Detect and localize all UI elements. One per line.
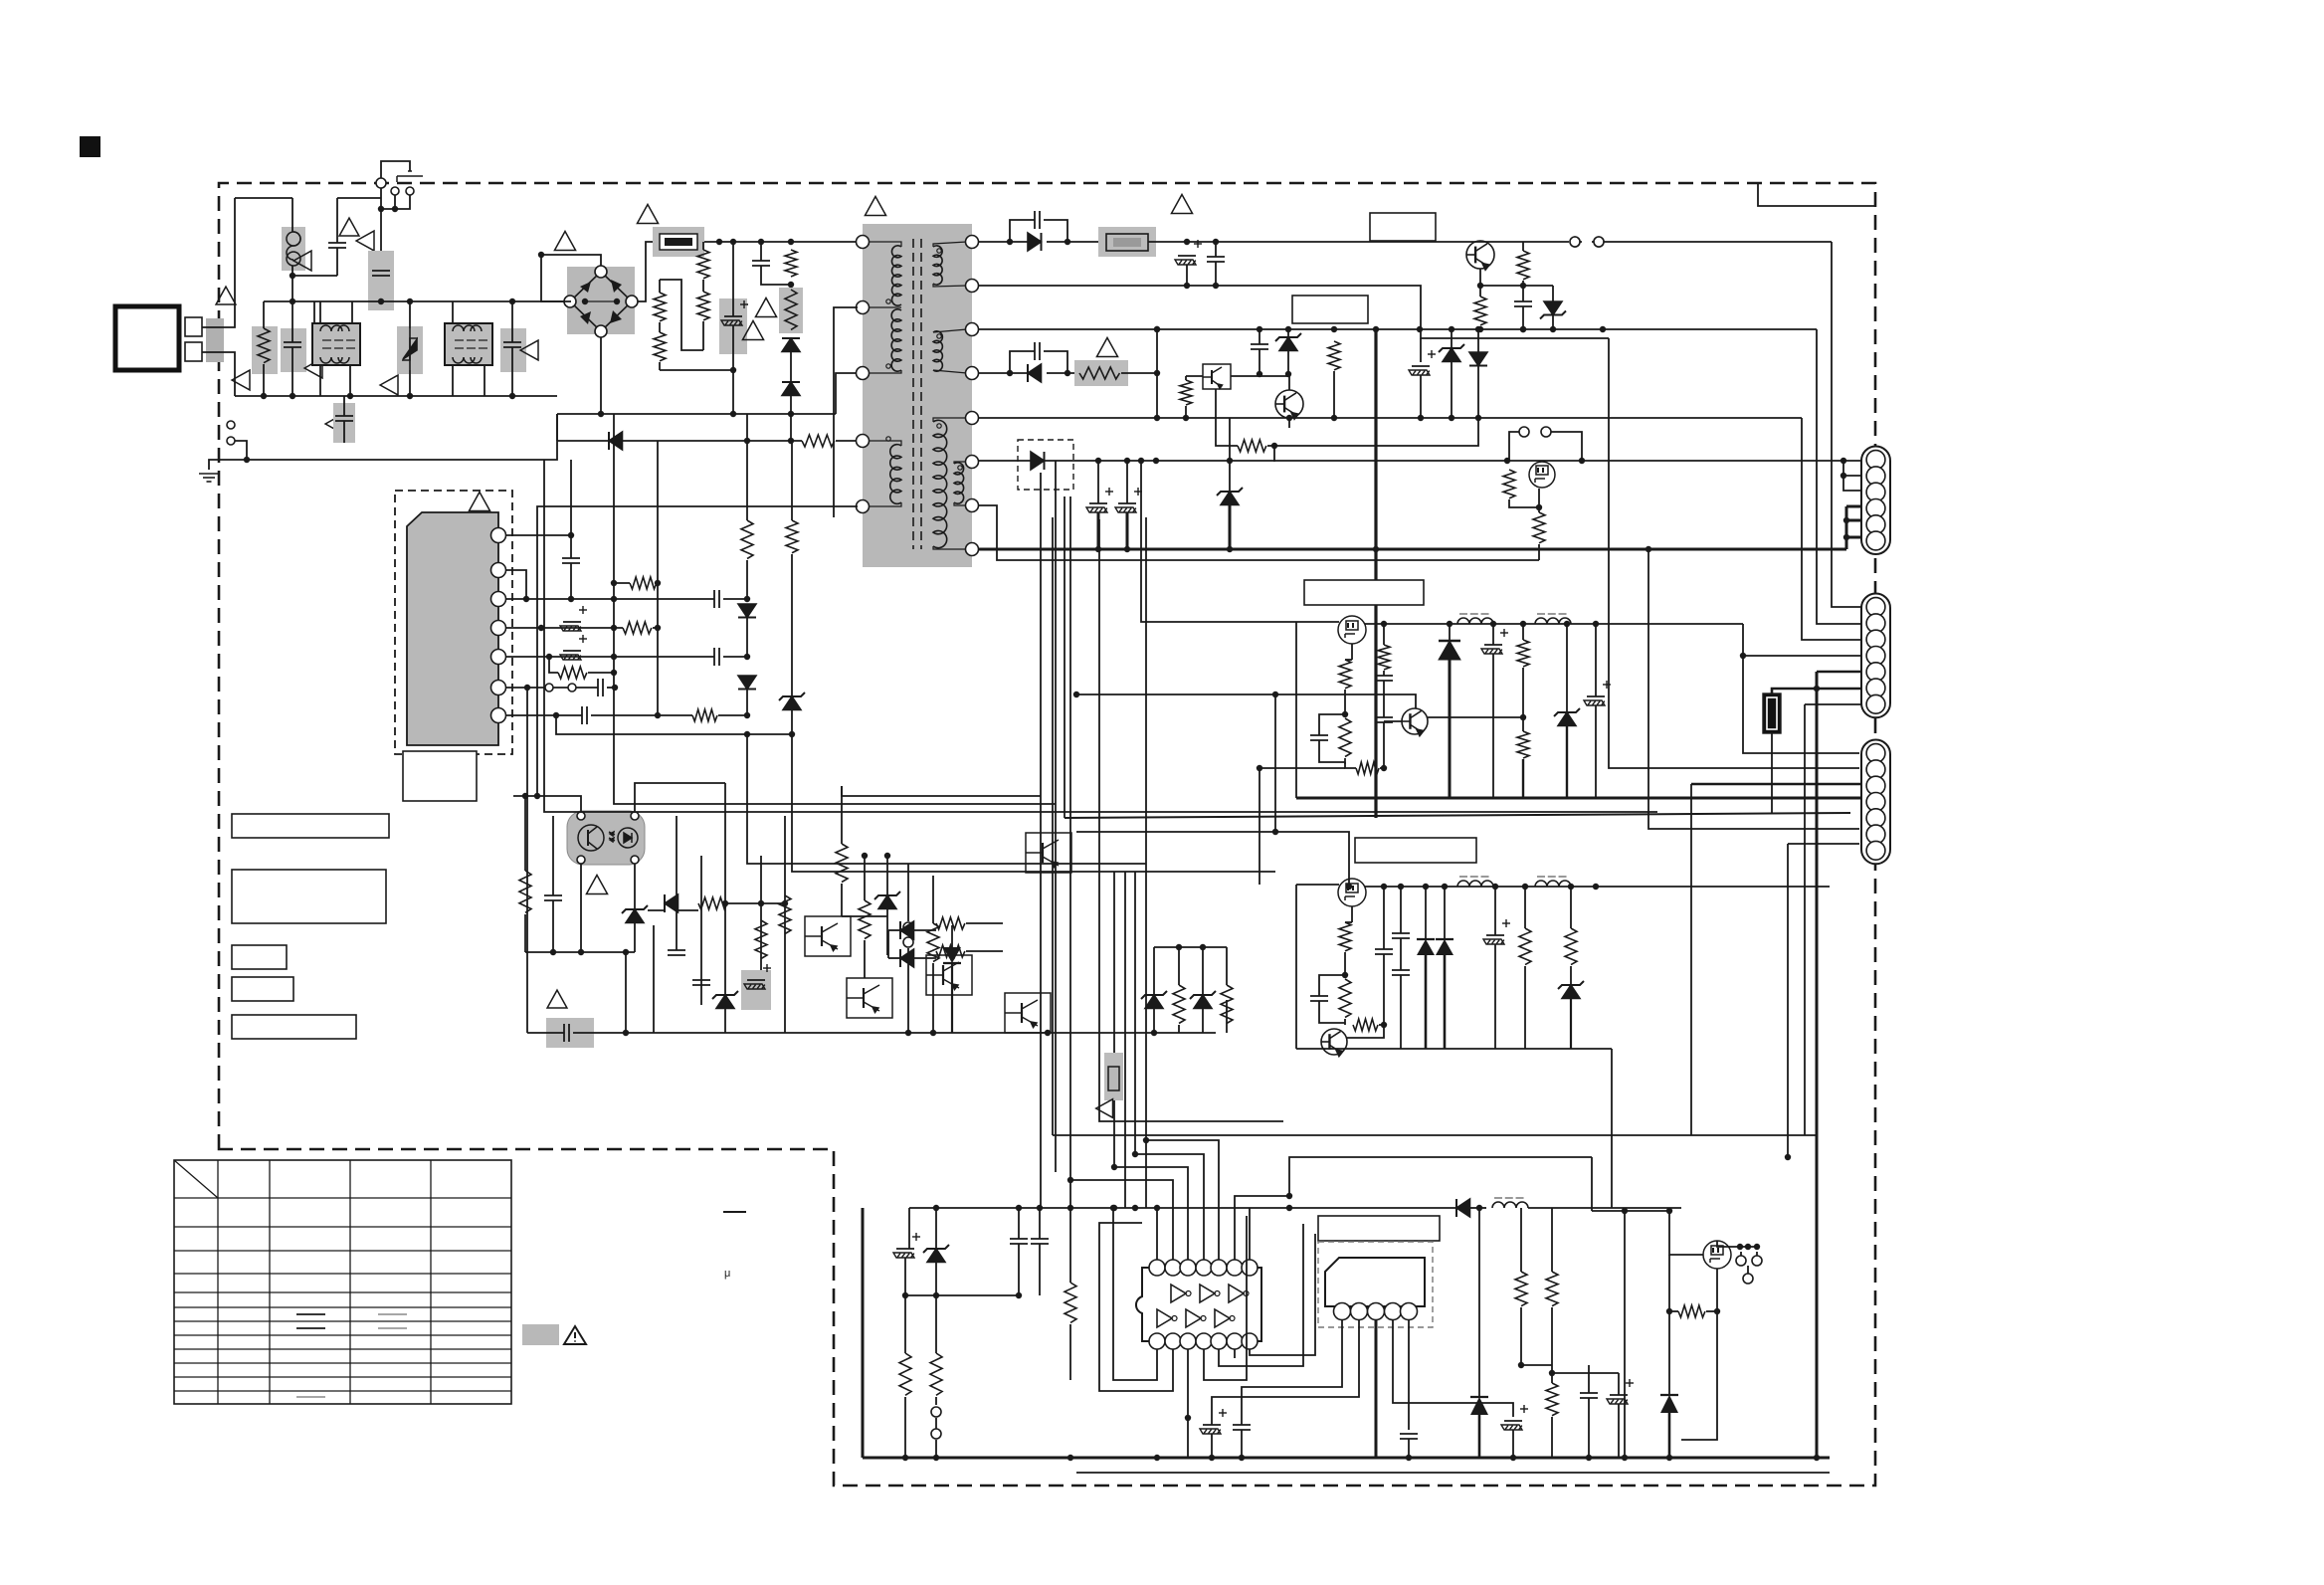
wire basin bus [573, 1032, 1216, 1034]
junction J92 [1373, 546, 1379, 552]
table entry dash 1 [296, 1313, 325, 1315]
resistor R18 [779, 895, 791, 934]
wire W78 [935, 1440, 937, 1458]
wire W43 [1552, 286, 1554, 301]
transistor Q10 box [1203, 364, 1231, 389]
junction J84 [1449, 326, 1454, 332]
wire W28 [914, 929, 936, 931]
node N1 [376, 178, 386, 188]
pin P33 [1242, 1260, 1258, 1276]
wire L5 to lower-left [537, 506, 858, 796]
wire Q13 base [1384, 720, 1402, 722]
optocoupler led [609, 828, 638, 848]
junction J94 [1475, 415, 1481, 421]
highlight resistor R1 [252, 326, 278, 374]
diode D12 [1031, 452, 1045, 470]
junction J89 [1285, 371, 1291, 377]
wire jumper down [1551, 432, 1582, 461]
label box I [1355, 838, 1476, 863]
AC inlet J1 [115, 306, 179, 370]
junction J19 [758, 239, 764, 245]
wire [1069, 1208, 1071, 1283]
junction J13 [244, 457, 250, 463]
junction J67 [1065, 239, 1070, 245]
junction J128 [1381, 884, 1387, 890]
junction J66 [1007, 239, 1013, 245]
junction J64 [1045, 1030, 1051, 1036]
wire snubber2 up [1010, 351, 1035, 373]
wire w4 head [868, 441, 901, 446]
junction J54 [623, 949, 629, 955]
wire IC2 p11 [1135, 1154, 1204, 1260]
wire W83 [1551, 1365, 1553, 1383]
wire ZD10 down [1451, 362, 1452, 418]
junction J137 [1381, 1022, 1387, 1028]
wire W25 [841, 884, 843, 916]
choke L2 [445, 323, 492, 365]
pin P12 [966, 499, 979, 512]
wire W14 [718, 714, 747, 716]
junction J9 [290, 393, 295, 399]
wire y952 link [1154, 946, 1227, 948]
resistor R33 [1339, 660, 1351, 689]
wire W39 [1479, 326, 1481, 329]
wire busA [1365, 623, 1743, 625]
wire switch pole2 [395, 195, 410, 209]
wire y416 bus [557, 413, 836, 415]
wire rail420 [978, 417, 1802, 419]
wire Q15 gate [1669, 1243, 1703, 1255]
junction J50 [522, 793, 528, 799]
junction J62 [1200, 944, 1206, 950]
wire W2 [343, 396, 345, 416]
wire y800 [513, 795, 537, 797]
junction J107 [1840, 458, 1846, 464]
wire W35 [1226, 947, 1228, 985]
wire busB bottom [1296, 1048, 1612, 1050]
junction J6 [407, 298, 413, 304]
wire [1273, 446, 1275, 462]
polarity dot [937, 249, 941, 253]
node N26 [1736, 1256, 1746, 1266]
wire Q10 left [1186, 375, 1203, 377]
wire W32 [888, 929, 900, 931]
wire D14 top [1425, 887, 1427, 939]
wire D18 stem [1668, 1413, 1671, 1458]
wire W19 [524, 914, 526, 952]
wire y372 bus [660, 369, 733, 371]
wire C1 bottom [291, 347, 293, 396]
wire W55 [1522, 624, 1524, 640]
transistor Q8 [1321, 1029, 1347, 1057]
wire y817 bus [1065, 813, 1850, 818]
warning mark inlet [216, 287, 236, 304]
pin P59 [1866, 841, 1885, 860]
label box J [1318, 1216, 1440, 1241]
capacitor C45 [1400, 1434, 1418, 1439]
wire IC2 p2 loop [1099, 1223, 1173, 1391]
wire busA to conn2 p4 [1743, 624, 1862, 656]
capacitor C17 [564, 1024, 569, 1042]
node N28 [1743, 1274, 1753, 1284]
junction J166 [1745, 1244, 1751, 1250]
wire y340 to conn3 p2 [1609, 338, 1859, 768]
wire W52 [1451, 329, 1452, 348]
capacitor C32 [1375, 676, 1393, 681]
resistor R6 [802, 435, 835, 447]
junction J37 [611, 654, 617, 660]
wire x617 low [613, 583, 615, 708]
junction J34 [611, 625, 617, 631]
wire bundle v5 [1124, 872, 1126, 1208]
wire y808 link [614, 786, 1056, 804]
junction J125 [1257, 765, 1262, 771]
junction J43 [655, 712, 661, 718]
wire y1380 link [1552, 1372, 1619, 1374]
capacitor C33 [1375, 717, 1393, 722]
wire basin v0 [653, 925, 655, 1033]
wire varistor top [409, 301, 411, 328]
wire C48 top [1618, 1373, 1620, 1395]
wire rail463 [978, 460, 1862, 462]
wire x796 mid [791, 554, 793, 696]
junction J145 [1286, 1205, 1292, 1211]
wire IC1 pin7 row [506, 714, 582, 716]
node N17 [903, 937, 913, 947]
junction J171 [1666, 1455, 1672, 1461]
junction J3 [290, 273, 295, 279]
wire y876 stub [1125, 871, 1275, 873]
junction J175 [1510, 1455, 1516, 1461]
warning mark R48 [1096, 337, 1117, 356]
wire W81 [1512, 1430, 1514, 1458]
junction J102 [1095, 458, 1101, 464]
pin P50 [1866, 663, 1885, 682]
pin P44 [1866, 515, 1885, 534]
wire IC3 p1 [1242, 1319, 1342, 1425]
junction J52 [578, 949, 584, 955]
wire opto TR [635, 783, 665, 812]
transistor Q9 [1466, 241, 1494, 270]
junction J113 [1138, 458, 1144, 464]
wire snubber up [1010, 220, 1035, 242]
wire inlet-top to upper loop [202, 198, 235, 327]
capacitor C18 [668, 950, 685, 955]
wire dpair link [887, 930, 889, 958]
wire W42 [1522, 286, 1524, 301]
pin P35 [1334, 1303, 1351, 1320]
IC2 hex inverter body [1136, 1268, 1261, 1341]
wire IC3 p5 [1408, 1319, 1410, 1430]
capacitor C47 [1580, 1393, 1598, 1398]
inlet gray block [206, 318, 224, 362]
wire L1b bottom [349, 365, 351, 396]
wire Q11 top [1288, 376, 1290, 390]
mosfet Q14 [1338, 879, 1366, 906]
junction J59 [862, 853, 868, 859]
wire [935, 1295, 937, 1353]
junction J95 [1007, 370, 1013, 376]
wire x528 [524, 796, 526, 871]
wire y772 link [1259, 767, 1345, 769]
wire W18 [791, 710, 793, 734]
inverter gate G1 [1171, 1285, 1186, 1302]
node N13 [577, 856, 585, 864]
mosfet Q15 [1703, 1241, 1731, 1269]
wire C27 stem [1097, 512, 1100, 549]
wire s3 head [933, 418, 967, 422]
pin P47 [1866, 614, 1885, 633]
wire D13 top [1449, 624, 1451, 641]
pin P23 [1165, 1260, 1181, 1276]
polarity dot [937, 424, 941, 428]
capacitor C36 electrolytic [1483, 919, 1510, 944]
junction J61 [1176, 944, 1182, 950]
junction J23 [788, 411, 794, 417]
junction J22 [788, 282, 794, 288]
wire [1153, 947, 1155, 995]
capacitor C1 [284, 342, 301, 347]
node N11 [568, 684, 576, 692]
junction J154 [1132, 1151, 1138, 1157]
wire W41 [1522, 281, 1524, 286]
wire W8 [702, 321, 704, 350]
wire link [1521, 1364, 1552, 1366]
wire W6 [702, 242, 704, 250]
junction J127 [1346, 884, 1352, 890]
wire conn1 p2 [1843, 461, 1862, 476]
junction J164 [1666, 1208, 1672, 1214]
inverter gate G2 [1200, 1285, 1215, 1302]
wire fuse-cap link [292, 275, 337, 277]
wire D2-D3 [790, 352, 792, 382]
wire C7 to R4 [761, 266, 791, 285]
wire W12 [588, 672, 614, 674]
wire opto TL [537, 796, 581, 812]
wire cap loop a [1319, 714, 1345, 735]
wire x629 up [625, 952, 627, 1033]
zener ZD11 [1558, 712, 1576, 726]
resistor R22 [936, 917, 965, 929]
transistor Q7 [1026, 833, 1071, 873]
wire W9 [760, 242, 762, 261]
resistor R16 [698, 897, 727, 909]
wire W7 [702, 280, 704, 292]
junction J36 [546, 654, 552, 660]
wire y1302 link [905, 1294, 1022, 1296]
wire p3 down [1187, 1366, 1189, 1418]
junction J39 [611, 670, 617, 676]
diode D15 [1436, 939, 1453, 955]
junction J5 [378, 298, 384, 304]
warning mark [339, 218, 359, 236]
pin P11 [966, 456, 979, 469]
inverter gate G3 [1229, 1285, 1244, 1302]
pin P17 [491, 621, 506, 636]
warning mark C4 [520, 340, 538, 360]
junction J38 [744, 654, 750, 660]
junction J121 [1073, 692, 1079, 697]
wire ZD11 stem [1566, 726, 1568, 798]
resistor R2a [654, 293, 666, 321]
wire C6 top [732, 242, 734, 316]
wire busB left [1296, 884, 1339, 886]
junction J99 [1154, 415, 1160, 421]
wire left edge link [862, 1208, 865, 1458]
diode D10 [900, 949, 914, 967]
capacitor C43 [1233, 1425, 1251, 1430]
wire switch to junction [380, 188, 382, 209]
wire Q16 gate row [1509, 499, 1535, 507]
pin P20 [491, 708, 506, 723]
resistor R1 [258, 328, 270, 363]
transformer core [913, 239, 921, 549]
wire switch pole [381, 195, 395, 209]
diode D8 [665, 894, 678, 912]
highlight C20 [741, 970, 771, 1010]
wire D13 stem [1449, 660, 1452, 798]
wire W75 [935, 1263, 937, 1295]
capacitor C40 [1010, 1239, 1028, 1244]
wire ZD14 top [1229, 461, 1231, 492]
winding sec-2 [933, 331, 942, 371]
wire busB [1365, 886, 1830, 888]
junction J20 [788, 239, 794, 245]
wire [678, 909, 698, 911]
wire [1018, 1208, 1020, 1239]
legend warning [564, 1326, 586, 1344]
wire y443 right [836, 440, 858, 442]
wire W70 [1379, 1024, 1384, 1026]
wire blockB left edge [1295, 885, 1297, 1049]
node N16 [903, 922, 913, 932]
label box E [232, 1015, 356, 1039]
junction J115 [1447, 621, 1452, 627]
wire x913 down [907, 864, 909, 921]
diode D7 [738, 676, 756, 690]
wire W61 [1380, 767, 1384, 769]
junction J16 [538, 252, 544, 258]
warning mark C1 [304, 358, 322, 378]
junction J85 [1475, 326, 1481, 332]
transistor Q4 [847, 978, 892, 1018]
zener ZD5 [878, 895, 896, 909]
wire conn1 p6 [1846, 536, 1862, 539]
wire blockB feed [1076, 832, 1349, 887]
wire ZD11 top [1566, 624, 1568, 712]
capacitor C34 [1392, 933, 1410, 938]
wire [886, 856, 888, 895]
resistor R28 [1180, 380, 1192, 405]
wire varistor bottom [409, 370, 411, 396]
junction J90 [1331, 415, 1337, 421]
table entry dash 4 [378, 1327, 407, 1329]
wire W85 [1756, 1252, 1758, 1256]
wire fuse bottom to rail [291, 266, 293, 301]
wire x913 low [907, 948, 909, 1033]
resistor R17 [755, 920, 767, 959]
wire basin z1160 [1153, 1000, 1155, 1033]
resistor R11 [558, 667, 587, 679]
wire W88 [1706, 1310, 1717, 1312]
junction J30 [568, 596, 574, 602]
junction J129 [1398, 884, 1404, 890]
svg-text:μ: μ [724, 1268, 730, 1280]
resistor R15 [519, 871, 531, 912]
junction J182 [1814, 686, 1820, 692]
resistor R26 [1474, 297, 1486, 325]
pin P4 [857, 435, 870, 448]
wire [1668, 1211, 1670, 1243]
capacitor C23 [1207, 257, 1225, 262]
wire [1520, 1307, 1522, 1365]
wire x1700 down [1690, 784, 1692, 1135]
wire thick x1383 [1374, 329, 1377, 818]
highlight R5 [779, 288, 803, 333]
wire x544 down [541, 255, 571, 301]
wire D20 top [951, 925, 953, 947]
pin P26 [1180, 1333, 1196, 1349]
diode D20 [943, 947, 961, 963]
node N3 [406, 187, 414, 195]
wire W4 [659, 322, 661, 332]
wire [1039, 1244, 1041, 1295]
wire cap loop b [1319, 740, 1345, 762]
junction J55 [722, 900, 728, 906]
pin P39 [1401, 1303, 1418, 1320]
wire [904, 1397, 906, 1458]
wire W47 [1287, 329, 1289, 337]
junction J118 [1564, 621, 1570, 627]
wire IC2 p10 [1146, 1140, 1219, 1260]
junction J80 [1285, 326, 1291, 332]
optocoupler PC1 body [567, 811, 645, 865]
junction J116 [1490, 621, 1496, 627]
capacitor C42 electrolytic [1200, 1409, 1227, 1434]
capacitor C11 electrolytic [560, 635, 587, 660]
wire x560 link [556, 414, 558, 441]
node N9 [595, 325, 607, 337]
wire [841, 786, 843, 844]
wire W15 [746, 560, 748, 599]
wire conn1 thick chain [1845, 506, 1848, 549]
junction J159 [1239, 1455, 1245, 1461]
wire W24 [756, 902, 785, 904]
pin P54 [1866, 760, 1885, 779]
junction J33 [538, 625, 544, 631]
wire w2 head [868, 306, 901, 308]
wire W44 [1552, 315, 1554, 329]
wire x751 link [746, 414, 748, 441]
zener ZD6 [1145, 995, 1163, 1009]
transistor Q11 [1275, 390, 1303, 419]
pin P18 [491, 650, 506, 665]
wire EMI top rail [264, 300, 571, 302]
zener ZD9 [1279, 337, 1297, 351]
junction J49 [534, 793, 540, 799]
pin P7 [966, 280, 979, 293]
resistor R5 [785, 290, 797, 329]
capacitor C14 [714, 648, 719, 666]
junction J83 [1417, 326, 1423, 332]
wire busB down [1611, 1049, 1613, 1208]
wire W71 [1383, 954, 1385, 1025]
wire W64 [1383, 722, 1385, 768]
wire thick bus552 [978, 548, 1846, 551]
table outline [174, 1160, 511, 1404]
wire W45 [1259, 329, 1260, 344]
pin P46 [1866, 598, 1885, 617]
